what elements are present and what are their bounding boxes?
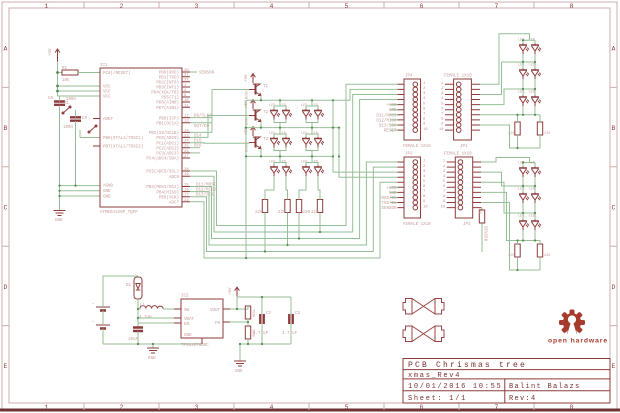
resistor R10 bbox=[537, 244, 550, 258]
wire rail row2 bbox=[246, 127, 339, 129]
svg-text:GND: GND bbox=[103, 196, 111, 200]
wire bus net6 IC to JP2 pin5 bbox=[190, 182, 398, 258]
svg-text:D12/MISO: D12/MISO bbox=[376, 118, 397, 123]
svg-text:B: B bbox=[612, 125, 616, 132]
resistor R9 bbox=[508, 244, 520, 258]
wire stubs labeled JP4 rows bbox=[390, 105, 398, 131]
transistor Q1 bbox=[246, 84, 269, 99]
svg-text:L1: L1 bbox=[140, 304, 146, 308]
wire cluster1 feed resistor line bbox=[480, 114, 540, 116]
svg-text:1: 1 bbox=[45, 404, 49, 411]
wire bus net4 IC to JP2 pin1 bbox=[190, 162, 398, 245]
svg-text:open hardware: open hardware bbox=[548, 338, 608, 345]
wire battery rail bbox=[103, 276, 202, 344]
svg-text:27: 27 bbox=[184, 155, 189, 159]
wire resistor bottoms to bus bbox=[265, 213, 320, 252]
svg-text:E: E bbox=[612, 363, 616, 370]
svg-text:PB5(SCK): PB5(SCK) bbox=[159, 195, 179, 200]
svg-text:+5V: +5V bbox=[245, 74, 249, 82]
wire cluster2 feed bottom line bbox=[481, 203, 540, 271]
svg-text:PB7(XTAL2/TOSC2): PB7(XTAL2/TOSC2) bbox=[103, 145, 143, 150]
svg-text:SENSOR: SENSOR bbox=[483, 226, 487, 242]
svg-text:ATMEGA328P_TQFP: ATMEGA328P_TQFP bbox=[100, 211, 138, 215]
svg-text:750k: 750k bbox=[251, 309, 256, 317]
svg-text:12: 12 bbox=[184, 115, 189, 119]
svg-text:6: 6 bbox=[420, 3, 424, 10]
svg-text:220: 220 bbox=[544, 132, 550, 136]
svg-text:22: 22 bbox=[184, 199, 189, 203]
svg-text:24: 24 bbox=[184, 140, 189, 144]
node dots matrix rails bbox=[245, 99, 313, 157]
svg-text:JP4: JP4 bbox=[405, 75, 413, 79]
resistor R7 bbox=[508, 122, 520, 136]
svg-text:+: + bbox=[92, 321, 94, 325]
LED pair D11 D12 bbox=[301, 161, 324, 177]
svg-text:3: 3 bbox=[195, 3, 199, 10]
svg-text:TPS6107XDDC: TPS6107XDDC bbox=[181, 344, 209, 348]
voltage regulator IC2 bbox=[174, 295, 230, 349]
wire matrix V1 to JP2 pin3 bbox=[333, 100, 398, 172]
svg-text:GND: GND bbox=[184, 334, 192, 338]
connector JP3 pin stubs right bbox=[473, 162, 481, 208]
svg-text:Balint Balazs: Balint Balazs bbox=[509, 383, 581, 391]
svg-text:FEMALE 1X10: FEMALE 1X10 bbox=[403, 145, 431, 149]
wire rail row1 bbox=[246, 99, 350, 101]
resistor R2 bbox=[255, 200, 268, 216]
svg-text:C: C bbox=[4, 204, 8, 211]
wire row1 LED bottom merge bbox=[274, 120, 318, 128]
wire cluster1 led verticals bbox=[523, 40, 535, 115]
svg-text:PB4(MISO): PB4(MISO) bbox=[156, 190, 179, 195]
svg-text:10k: 10k bbox=[62, 78, 70, 83]
wire VCC vertical rail left of IC1 bbox=[58, 63, 101, 96]
svg-text:PB6(XTAL1/TOSC1): PB6(XTAL1/TOSC1) bbox=[103, 136, 143, 141]
resistor R6 sensor bbox=[477, 208, 487, 252]
frame row ticks left bbox=[2, 87, 9, 325]
svg-text:19: 19 bbox=[184, 173, 189, 177]
net labels D1x near group3 pins bbox=[194, 134, 202, 148]
svg-text:FEMALE 1X10: FEMALE 1X10 bbox=[444, 153, 472, 157]
svg-text:25: 25 bbox=[184, 145, 189, 149]
svg-text:EN: EN bbox=[184, 323, 190, 327]
svg-text:xmas_Rev4: xmas_Rev4 bbox=[408, 372, 461, 380]
connector JP1 pin stubs left bbox=[445, 84, 454, 130]
LED pair D17 D18 bbox=[518, 91, 541, 107]
resistor R3 bbox=[278, 200, 290, 216]
svg-text:PC5(ADC5/SCL): PC5(ADC5/SCL) bbox=[146, 170, 179, 175]
svg-text:AREF: AREF bbox=[103, 118, 114, 122]
frame row letters left bbox=[4, 46, 8, 371]
node dots bus joins bbox=[245, 99, 340, 259]
wire matrix left vertical bbox=[245, 100, 247, 258]
svg-text:2: 2 bbox=[120, 3, 124, 10]
svg-text:D13/SCK: D13/SCK bbox=[379, 124, 397, 129]
connector JP4 body bbox=[403, 75, 431, 150]
svg-text:PD1(TXD): PD1(TXD) bbox=[159, 75, 179, 80]
wire stubs labeled JP2 rows bbox=[390, 187, 398, 202]
LED pair D23 D24 bbox=[518, 215, 541, 231]
svg-text:4.7 uF: 4.7 uF bbox=[253, 332, 269, 336]
svg-text:220: 220 bbox=[278, 211, 286, 215]
svg-text:VCC: VCC bbox=[103, 96, 111, 100]
supply +5V arrow above Q3 bbox=[245, 127, 255, 136]
svg-text:23: 23 bbox=[184, 134, 189, 138]
svg-text:PD7(AIN1): PD7(AIN1) bbox=[156, 106, 179, 111]
svg-text:ADC6: ADC6 bbox=[169, 176, 180, 180]
svg-text:D: D bbox=[4, 284, 8, 291]
svg-text:10: 10 bbox=[423, 205, 428, 209]
svg-text:GND: GND bbox=[103, 190, 111, 194]
svg-text:+: + bbox=[92, 303, 94, 307]
svg-text:PC4(ADC4/SDA): PC4(ADC4/SDA) bbox=[146, 157, 179, 162]
wire Q2 base feed bbox=[190, 116, 249, 138]
svg-text:7: 7 bbox=[495, 3, 499, 10]
svg-text:220: 220 bbox=[508, 132, 514, 136]
transistor Q2 bbox=[246, 110, 269, 125]
wire bus net5 IC to JP2 pin2 bbox=[190, 167, 398, 251]
svg-text:PD0(RXD): PD0(RXD) bbox=[159, 71, 179, 76]
svg-text:PB3(MOSI/OC2): PB3(MOSI/OC2) bbox=[146, 185, 179, 190]
connector JP3 pin stubs left bbox=[447, 162, 456, 208]
node junctions on GND rail bbox=[58, 185, 76, 198]
svg-text:30: 30 bbox=[184, 69, 189, 73]
svg-text:PB0(ICP): PB0(ICP) bbox=[159, 116, 179, 121]
wire cluster1 feed bottom line bbox=[480, 125, 540, 148]
node junctions on VCC rail bbox=[56, 71, 59, 92]
connector JP4 pin stubs bbox=[398, 84, 405, 130]
svg-text:10: 10 bbox=[441, 205, 446, 209]
title block border bbox=[403, 359, 610, 404]
wire rail1 to JP4 pin2 bbox=[350, 89, 398, 100]
svg-text:16: 16 bbox=[184, 189, 189, 193]
wire net OUT/D9 stub bbox=[190, 123, 212, 130]
connector JP2 pin stubs bbox=[398, 162, 405, 208]
svg-text:32: 32 bbox=[184, 79, 189, 83]
svg-text:FB: FB bbox=[215, 322, 221, 326]
svg-text:220: 220 bbox=[303, 211, 311, 215]
LED pair D15 D16 bbox=[518, 64, 541, 80]
wire cluster2 resistor leads bbox=[518, 241, 541, 271]
wire net D8/CLKO stub bbox=[190, 114, 212, 119]
frame column numbers top bbox=[45, 3, 574, 10]
svg-text:2: 2 bbox=[120, 404, 124, 411]
wire net SENSOR stub bbox=[190, 72, 215, 76]
svg-text:FEMALE 1X10: FEMALE 1X10 bbox=[403, 223, 431, 227]
svg-text:4: 4 bbox=[270, 404, 274, 411]
ground symbol power right bbox=[234, 361, 246, 374]
svg-text:PD4(XCK/T0): PD4(XCK/T0) bbox=[151, 91, 179, 96]
svg-text:T1: T1 bbox=[263, 85, 269, 89]
svg-text:PCB Chrismas tree: PCB Chrismas tree bbox=[408, 361, 527, 370]
capacitor C9 bbox=[63, 110, 88, 186]
net labels MOSI MISO SCK near bottom pins bbox=[196, 183, 217, 198]
svg-text:PD6(AIN0): PD6(AIN0) bbox=[156, 101, 179, 106]
IC1 left pin names bbox=[103, 71, 143, 200]
net labels left of JP4 bbox=[376, 104, 397, 134]
svg-text:PD5(T1): PD5(T1) bbox=[161, 96, 179, 101]
wire cluster1 feed junction12 bbox=[480, 62, 535, 95]
svg-text:TXD/D1: TXD/D1 bbox=[381, 201, 397, 206]
svg-text:C: C bbox=[612, 204, 616, 211]
inductor L1 bbox=[138, 304, 174, 320]
wire cluster2 feed row top bbox=[481, 158, 535, 163]
wire row1 LED top merge bbox=[274, 100, 318, 109]
svg-text:15: 15 bbox=[184, 184, 189, 188]
battery B1 cell 2 bbox=[92, 321, 110, 329]
svg-text:E: E bbox=[4, 363, 8, 370]
IC1 right pin names bbox=[146, 71, 179, 206]
connector JP2 pin numbers bbox=[423, 160, 428, 210]
svg-text:5: 5 bbox=[345, 404, 349, 411]
wire row3 to resistors bbox=[265, 176, 320, 200]
svg-text:220: 220 bbox=[311, 211, 319, 215]
frame column numbers bottom bbox=[45, 404, 574, 411]
svg-text:VBAT: VBAT bbox=[184, 318, 195, 322]
wire matrix V2 to JP2 pin4 bbox=[339, 128, 398, 178]
IC1 right pin stubs bbox=[182, 72, 190, 202]
capacitor C1 bbox=[128, 328, 143, 345]
svg-text:5: 5 bbox=[345, 3, 349, 10]
wire bus net3 IC to JP4 pin4 bbox=[190, 100, 398, 239]
connector JP3 pin numbers bbox=[441, 160, 446, 210]
wire rail row3 bbox=[246, 155, 333, 157]
jumper footprint X2 bbox=[403, 326, 444, 342]
svg-text:4: 4 bbox=[270, 3, 274, 10]
svg-text:A: A bbox=[612, 46, 616, 53]
jumper footprint X1 bbox=[403, 299, 444, 315]
svg-text:PB1(OC1A): PB1(OC1A) bbox=[156, 121, 179, 126]
svg-text:PC0(ADC0): PC0(ADC0) bbox=[156, 136, 179, 141]
svg-text:D8/CLKO: D8/CLKO bbox=[194, 114, 212, 119]
node dots cluster1 bbox=[516, 39, 536, 149]
resistor R11 bbox=[245, 306, 255, 319]
svg-text:8: 8 bbox=[570, 3, 574, 10]
svg-text:31: 31 bbox=[184, 74, 189, 78]
connector JP3 pin circles bbox=[458, 160, 463, 210]
wire row2 LED bottom merge bbox=[274, 148, 318, 157]
connector JP1 body bbox=[444, 75, 472, 150]
wire cluster1 feed row top bbox=[480, 34, 535, 85]
open hardware logo gear bbox=[548, 310, 608, 345]
svg-text:Sheet: 1/1: Sheet: 1/1 bbox=[408, 395, 467, 403]
svg-text:PC3(ADC3): PC3(ADC3) bbox=[156, 152, 179, 157]
switch S2 bbox=[88, 125, 97, 133]
wire bus net2 IC to JP4 pin3 bbox=[190, 95, 398, 233]
svg-text:FEMALE 1X10: FEMALE 1X10 bbox=[444, 75, 472, 79]
wire pc2 stub bbox=[190, 147, 200, 149]
svg-text:OUT/D9: OUT/D9 bbox=[194, 124, 210, 129]
connector JP2 body bbox=[403, 153, 431, 228]
connector JP4 pin numbers bbox=[423, 82, 428, 132]
node dots cluster2 bbox=[516, 161, 536, 271]
svg-text:14: 14 bbox=[184, 129, 189, 133]
node dots power bbox=[137, 296, 263, 345]
svg-text:6: 6 bbox=[420, 404, 424, 411]
frame row letters right bbox=[612, 46, 616, 371]
wire Q1 emitter to rail1 bbox=[260, 96, 262, 101]
wire VBAT EN branch bbox=[138, 309, 174, 327]
svg-text:D11/MOSI: D11/MOSI bbox=[376, 113, 397, 118]
svg-text:T3: T3 bbox=[263, 138, 269, 142]
svg-text:3: 3 bbox=[195, 404, 199, 411]
svg-text:PC2(ADC2): PC2(ADC2) bbox=[156, 146, 179, 151]
wire bus net1 IC to JP4 pin1 bbox=[190, 84, 398, 225]
wire Q3 base feed bbox=[190, 142, 249, 145]
wire cluster1 resistor leads bbox=[518, 115, 541, 148]
svg-text:1: 1 bbox=[45, 3, 49, 10]
wire VOUT rail bbox=[230, 297, 291, 314]
wire FB divider bbox=[230, 306, 291, 361]
svg-text:10: 10 bbox=[439, 128, 444, 132]
svg-text:28: 28 bbox=[184, 168, 189, 172]
svg-text:A: A bbox=[4, 46, 8, 53]
svg-text:C9: C9 bbox=[82, 117, 88, 121]
svg-text:11: 11 bbox=[184, 104, 189, 108]
svg-text:AGND: AGND bbox=[103, 185, 114, 189]
svg-text:PC1(ADC1): PC1(ADC1) bbox=[156, 141, 179, 146]
svg-text:+5V: +5V bbox=[229, 287, 233, 295]
svg-text:SW: SW bbox=[184, 309, 190, 313]
svg-text:8: 8 bbox=[570, 404, 574, 411]
wire Q3 emitter to rail3 bbox=[260, 149, 262, 157]
LED pair D21 D22 bbox=[518, 188, 541, 204]
svg-text:GND: GND bbox=[148, 357, 156, 361]
wire cluster2 led verticals bbox=[523, 163, 535, 241]
svg-text:4.7 uF: 4.7 uF bbox=[282, 332, 298, 336]
svg-text:PD2(INT0): PD2(INT0) bbox=[156, 80, 179, 85]
transistor Q3 bbox=[246, 137, 269, 152]
net labels left of JP2 bbox=[381, 187, 397, 211]
frame column ticks bottom bbox=[84, 403, 534, 410]
frame row ticks right bbox=[610, 87, 617, 325]
connector JP2 pin circles bbox=[413, 160, 418, 210]
svg-text:VOUT: VOUT bbox=[210, 309, 221, 313]
svg-text:S1: S1 bbox=[64, 102, 70, 106]
supply +5V arrow above Q2 bbox=[245, 100, 255, 109]
supply +5V arrow above Q1 bbox=[245, 74, 255, 83]
svg-text:VCC: VCC bbox=[103, 86, 111, 90]
svg-text:SENSOR: SENSOR bbox=[199, 72, 215, 76]
connector JP1 pin circles bbox=[456, 82, 461, 132]
resistor R8 bbox=[537, 122, 550, 136]
svg-text:T2: T2 bbox=[263, 111, 269, 115]
LED pair D3 D4 bbox=[301, 104, 324, 120]
svg-text:7: 7 bbox=[495, 404, 499, 411]
wire cluster1 feed junction23 bbox=[480, 89, 535, 105]
battery B1 cell 1 bbox=[92, 303, 110, 311]
svg-text:10/01/2016 10:55: 10/01/2016 10:55 bbox=[408, 383, 502, 391]
switch S1 bbox=[62, 102, 71, 114]
svg-text:JP1: JP1 bbox=[460, 145, 468, 149]
LED pair D5 D6 bbox=[269, 132, 292, 148]
svg-text:220: 220 bbox=[255, 211, 263, 215]
svg-text:D1: D1 bbox=[126, 284, 132, 288]
wire row2 LED top merge bbox=[274, 128, 318, 137]
svg-text:13: 13 bbox=[184, 120, 189, 124]
diode D1 bbox=[126, 276, 142, 309]
svg-text:BC807: BC807 bbox=[246, 88, 250, 99]
wire GND rail left of IC1 bbox=[60, 186, 101, 211]
IC1 right pin numbers bbox=[184, 69, 189, 203]
LED pair D9 D10 bbox=[269, 161, 292, 177]
wire cluster2 feed resistor line bbox=[481, 192, 540, 240]
wire Q1 base feed bbox=[190, 90, 249, 133]
LED pair D7 D8 bbox=[301, 132, 324, 148]
svg-text:220: 220 bbox=[544, 254, 550, 258]
svg-text:IC2: IC2 bbox=[181, 295, 189, 299]
svg-text:+5V: +5V bbox=[49, 48, 53, 56]
svg-text:JP3: JP3 bbox=[463, 223, 471, 227]
supply +5V arrow (left) bbox=[49, 48, 60, 62]
svg-text:IC1: IC1 bbox=[100, 64, 108, 68]
svg-text:26: 26 bbox=[184, 150, 189, 154]
resistor R1 bbox=[62, 67, 100, 83]
wire cluster2 feed junction23 bbox=[481, 182, 535, 213]
LED pair D1 D2 bbox=[269, 104, 292, 120]
capacitor C3 bbox=[282, 312, 301, 336]
wire row3 LED top merge bbox=[274, 156, 318, 165]
wire PB7 to IC1 bbox=[80, 130, 100, 138]
ground symbol below left rail bbox=[54, 211, 66, 224]
microcontroller IC1 bbox=[100, 64, 182, 215]
resistor R5 bbox=[311, 200, 323, 216]
svg-text:D: D bbox=[612, 284, 616, 291]
svg-text:10: 10 bbox=[423, 128, 428, 132]
svg-text:C6: C6 bbox=[48, 97, 54, 101]
connector JP3 body bbox=[444, 153, 473, 228]
wire pc3 stub bbox=[190, 152, 200, 154]
LED pair D13 D14 bbox=[518, 39, 541, 55]
svg-text:PB2(SS/OC1B): PB2(SS/OC1B) bbox=[149, 131, 179, 136]
svg-text:PD3(INT1): PD3(INT1) bbox=[156, 86, 179, 91]
svg-text:VCC: VCC bbox=[103, 91, 111, 95]
resistor R12 bbox=[245, 326, 255, 339]
svg-text:10k: 10k bbox=[477, 208, 482, 214]
ground symbol power left bbox=[147, 344, 159, 361]
LED pair D19 D20 bbox=[518, 162, 541, 178]
wire Q2 emitter to rail2 bbox=[260, 122, 262, 128]
svg-text:100n: 100n bbox=[63, 126, 74, 130]
svg-text:JP2: JP2 bbox=[405, 153, 413, 157]
resistor R4 bbox=[296, 200, 310, 216]
svg-text:SENSOR: SENSOR bbox=[381, 207, 397, 211]
connector JP4 pin circles bbox=[413, 82, 418, 132]
connector JP1 pin stubs right bbox=[471, 84, 480, 130]
wire cluster2 feed junction12 bbox=[481, 172, 535, 186]
svg-text:GND: GND bbox=[235, 370, 243, 374]
frame column ticks top bbox=[84, 2, 534, 8]
svg-text:PC6(/RESET): PC6(/RESET) bbox=[103, 71, 131, 76]
svg-text:10: 10 bbox=[184, 99, 189, 103]
connector JP1 pin numbers bbox=[439, 82, 444, 132]
svg-text:GND: GND bbox=[55, 219, 63, 223]
svg-text:10uF: 10uF bbox=[128, 338, 139, 342]
svg-text:17: 17 bbox=[184, 194, 189, 198]
svg-text:220: 220 bbox=[508, 254, 514, 258]
svg-text:B: B bbox=[4, 125, 8, 132]
svg-text:C2: C2 bbox=[266, 312, 272, 316]
capacitor C6 bbox=[48, 96, 77, 186]
supply +5V arrow power bbox=[229, 287, 239, 297]
svg-text:RXD/D0: RXD/D0 bbox=[381, 196, 397, 201]
IC1 left pin stubs bbox=[93, 119, 100, 147]
capacitor C2 bbox=[253, 312, 272, 336]
svg-text:C3: C3 bbox=[295, 312, 301, 316]
svg-text:ADC7: ADC7 bbox=[169, 202, 180, 206]
svg-text:Rev:4: Rev:4 bbox=[509, 395, 537, 403]
svg-text:R1: R1 bbox=[62, 67, 68, 71]
